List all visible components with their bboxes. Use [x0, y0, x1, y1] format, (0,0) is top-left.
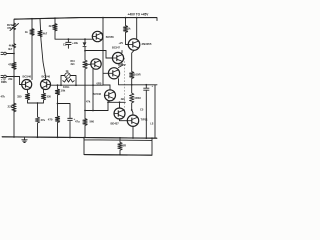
svg-text:47k: 47k	[7, 26, 12, 30]
svg-text:470: 470	[48, 118, 53, 122]
svg-text:22k: 22k	[8, 105, 13, 109]
svg-text:47k: 47k	[86, 99, 91, 103]
svg-text:BC547: BC547	[112, 46, 121, 50]
svg-text:47k: 47k	[1, 95, 6, 99]
svg-text:BC546: BC546	[93, 92, 102, 96]
svg-text:4k7: 4k7	[49, 24, 54, 28]
svg-text:330: 330	[47, 95, 52, 99]
svg-text:BC557: BC557	[118, 64, 126, 67]
svg-text:330: 330	[17, 95, 22, 99]
svg-text:100n: 100n	[63, 85, 70, 89]
svg-text:1k: 1k	[128, 27, 132, 31]
svg-text:BC546: BC546	[23, 75, 32, 79]
svg-text:BC546: BC546	[42, 75, 51, 79]
svg-text:+2V: +2V	[119, 41, 124, 45]
svg-text:BC556: BC556	[106, 35, 115, 39]
svg-text:0R5: 0R5	[97, 81, 102, 85]
svg-text:4k6: 4k6	[121, 98, 126, 101]
svg-text:47k: 47k	[8, 63, 13, 67]
svg-text:TIP31: TIP31	[141, 118, 149, 122]
svg-text:22k: 22k	[8, 77, 13, 81]
svg-text:2N3055: 2N3055	[142, 42, 152, 46]
svg-text:10k: 10k	[74, 41, 79, 45]
svg-text:+40V TO +45V: +40V TO +45V	[128, 12, 150, 16]
svg-text:47u: 47u	[41, 118, 46, 122]
svg-text:47u: 47u	[75, 120, 80, 124]
svg-text:RMS: RMS	[1, 80, 7, 84]
svg-text:BD437: BD437	[111, 121, 120, 125]
svg-text:560: 560	[90, 120, 95, 124]
svg-text:1k: 1k	[25, 30, 29, 34]
svg-text:LS: LS	[150, 123, 153, 126]
svg-text:4k7: 4k7	[43, 32, 48, 36]
svg-text:8R: 8R	[123, 144, 127, 148]
svg-text:4k7: 4k7	[8, 47, 13, 51]
svg-text:0R33: 0R33	[135, 96, 142, 100]
svg-text:1k: 1k	[66, 69, 70, 73]
svg-text:R10: R10	[71, 61, 76, 63]
svg-text:C2: C2	[63, 43, 67, 47]
svg-text:100R: 100R	[134, 72, 141, 76]
svg-text:10k: 10k	[61, 89, 66, 93]
svg-text:C5: C5	[140, 108, 144, 112]
